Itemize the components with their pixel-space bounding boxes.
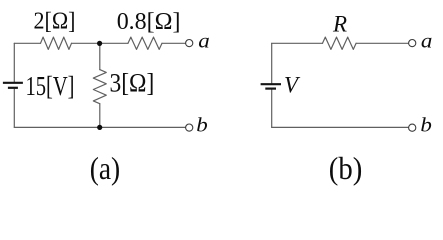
battery 15V long plate [3, 82, 23, 84]
svg-text:(a): (a) [90, 151, 121, 186]
terminal a circuit (b) [409, 40, 416, 47]
battery V short plate [265, 87, 276, 89]
battery V long plate [261, 83, 281, 85]
node junction bottom [97, 125, 102, 130]
node junction top [97, 41, 102, 46]
wire: between 2-ohm resistor and node [72, 42, 129, 44]
svg-text:b: b [196, 115, 208, 137]
wire: circuit (b) top [272, 42, 323, 44]
wire: node to 3-ohm resistor [99, 43, 101, 69]
wire: 0.8 ohm resistor to terminal a [162, 42, 185, 44]
resistor 0.8 ohm zigzag [128, 37, 162, 49]
resistor R zigzag circuit (b) [323, 37, 357, 49]
svg-text:V: V [284, 72, 301, 97]
svg-text:3[Ω]: 3[Ω] [110, 69, 155, 98]
svg-text:a: a [198, 31, 210, 53]
terminal a circuit (a) [186, 40, 193, 47]
svg-text:15[V]: 15[V] [26, 71, 75, 101]
svg-text:(b): (b) [329, 151, 363, 186]
svg-text:2[Ω]: 2[Ω] [34, 9, 76, 35]
wire: circuit (a) top-left segment [14, 42, 40, 44]
svg-text:a: a [421, 31, 433, 53]
svg-text:0.8[Ω]: 0.8[Ω] [117, 9, 181, 35]
resistor 3 ohm vertical zigzag [93, 70, 106, 104]
battery 15V short plate [8, 87, 18, 89]
terminal b circuit (a) [186, 124, 193, 131]
wire: circuit (b) left vertical upper [271, 43, 273, 83]
svg-text:b: b [420, 115, 432, 137]
wire: circuit (a) left vertical upper (to battery) [13, 43, 15, 81]
wire: circuit (b) bottom [272, 126, 408, 128]
resistor R=2 ohm zigzag [41, 37, 72, 49]
svg-text:R: R [332, 11, 347, 36]
terminal b circuit (b) [409, 124, 416, 131]
wire: circuit (b) left vertical lower [271, 90, 273, 128]
wire: circuit (a) left vertical lower (battery to bottom) [13, 89, 15, 127]
wire: circuit (a) bottom [14, 126, 185, 128]
wire: 3-ohm resistor to bottom node [99, 104, 101, 128]
wire: R resistor to terminal a circuit (b) [356, 42, 408, 44]
